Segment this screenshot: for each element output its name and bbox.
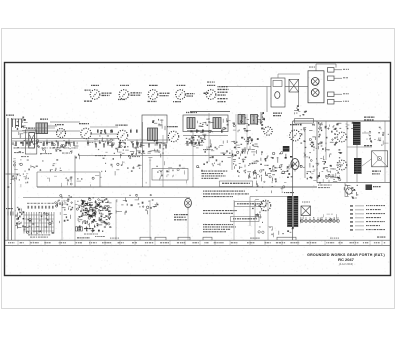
- svg-text:RC 2047: RC 2047: [338, 257, 355, 262]
- svg-text:(4-1/2 2013): (4-1/2 2013): [339, 262, 353, 266]
